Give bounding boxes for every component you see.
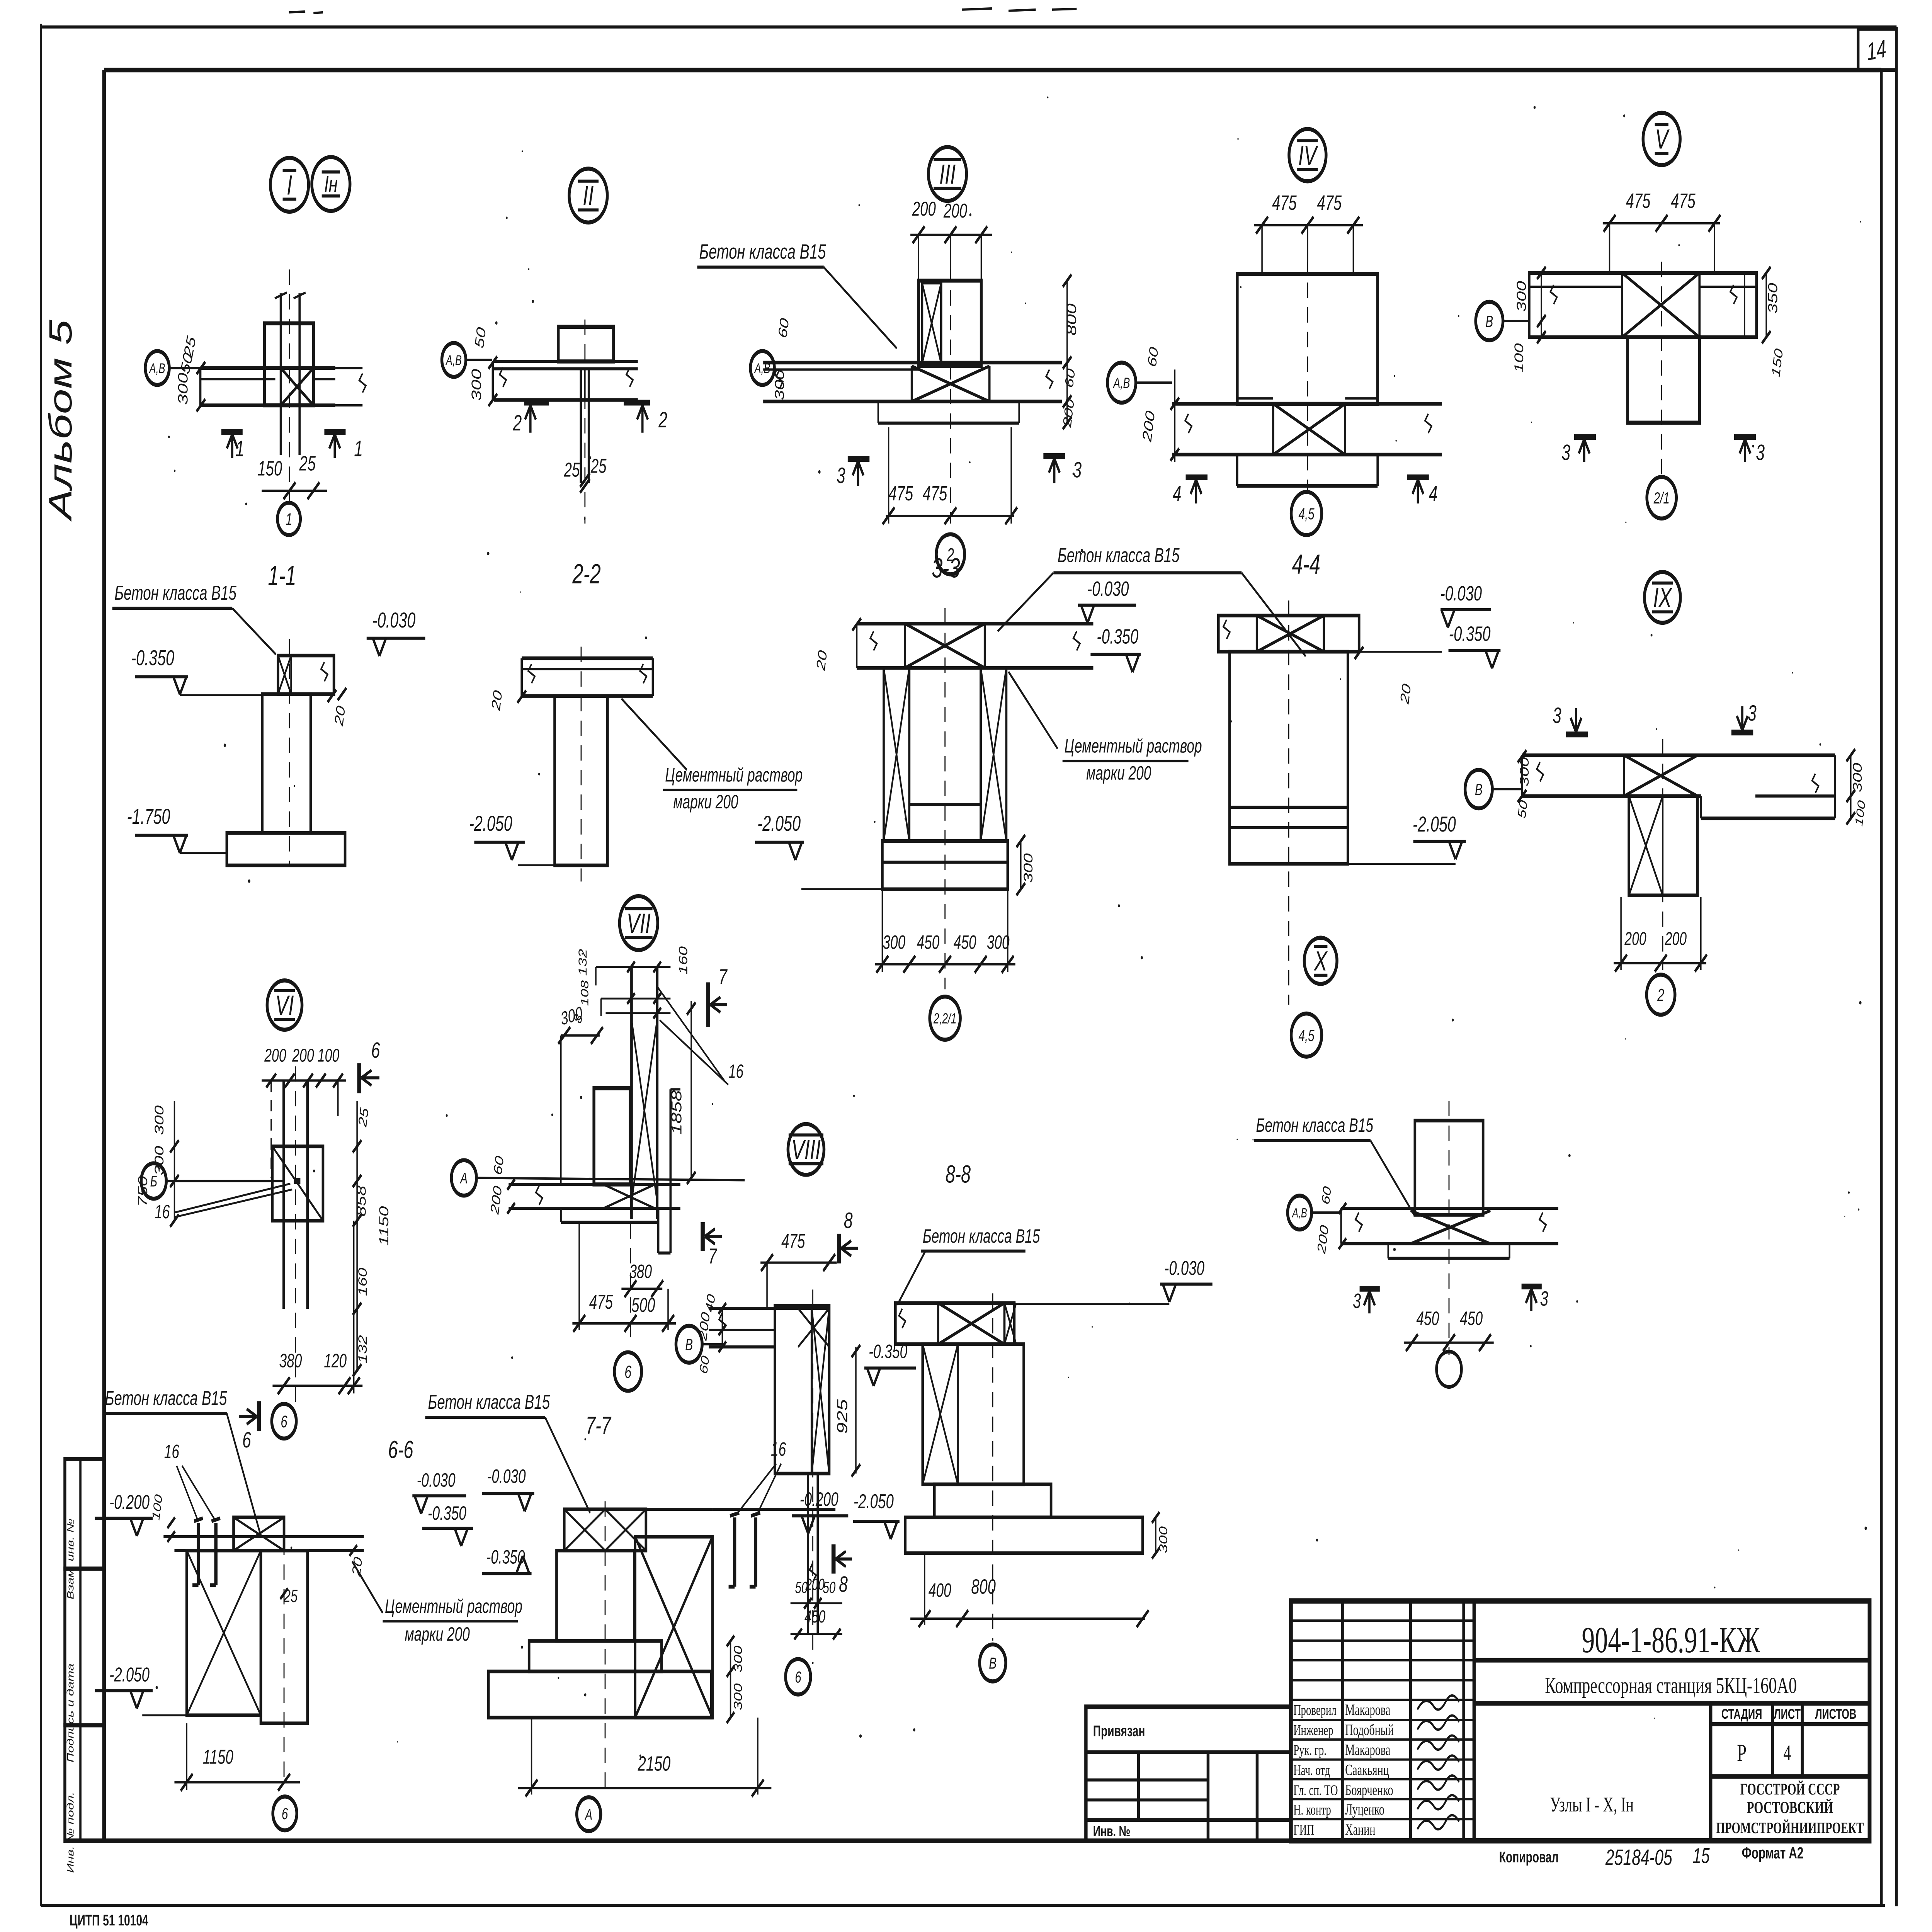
svg-text:4: 4 — [1173, 481, 1182, 506]
section 6-6 centerline — [283, 1540, 285, 1786]
svg-text:Макарова: Макарова — [1345, 1702, 1390, 1719]
svg-text:А,В: А,В — [1113, 374, 1130, 391]
svg-text:-0.350: -0.350 — [428, 1503, 466, 1524]
svg-text:А,В: А,В — [1291, 1206, 1307, 1220]
title block stage table — [1708, 1703, 1713, 1841]
detail VII grout pad — [561, 1221, 658, 1224]
svg-text:1-1: 1-1 — [268, 561, 296, 592]
svg-text:3-3: 3-3 — [932, 553, 960, 584]
detail I slab — [200, 366, 335, 370]
svg-text:475: 475 — [1626, 189, 1651, 212]
svg-text:60: 60 — [1145, 345, 1161, 368]
section 3-3 axis circle 2,2/1 — [930, 997, 960, 1040]
svg-text:ЦИТП 51 10104: ЦИТП 51 10104 — [70, 1912, 149, 1929]
svg-text:3: 3 — [1756, 440, 1765, 465]
svg-text:Бетон класса В15: Бетон класса В15 — [699, 240, 826, 263]
svg-text:475: 475 — [589, 1291, 613, 1313]
svg-text:25: 25 — [356, 1106, 371, 1129]
section 6-6 column right — [261, 1551, 308, 1723]
svg-text:25: 25 — [299, 452, 316, 475]
svg-text:132: 132 — [576, 949, 589, 976]
svg-text:В: В — [1486, 312, 1493, 330]
svg-text:VIII: VIII — [791, 1134, 821, 1165]
detail V axis circle B — [1476, 302, 1503, 340]
svg-text:2,2/1: 2,2/1 — [933, 1010, 956, 1027]
svg-text:Ханин: Ханин — [1345, 1821, 1375, 1838]
svg-text:2: 2 — [658, 407, 667, 432]
detail IX beam lower ledge — [1701, 816, 1835, 820]
section 8-8 cap — [895, 1303, 1014, 1344]
section 7-7 axis circle A — [577, 1797, 601, 1831]
svg-text:475: 475 — [1671, 189, 1696, 212]
detail III axis circle 2 — [936, 534, 964, 575]
detail V centerline — [1661, 262, 1662, 477]
svg-text:Гл. сп. ТО: Гл. сп. ТО — [1293, 1782, 1338, 1799]
section 8-8 axis circle B — [980, 1645, 1006, 1682]
section 3-3 footing — [882, 841, 1007, 889]
svg-text:450: 450 — [804, 1607, 825, 1627]
svg-text:Подпись и дата: Подпись и дата — [65, 1663, 76, 1762]
detail VII axis circle 6 — [614, 1352, 642, 1391]
svg-text:IX: IX — [1653, 583, 1672, 614]
svg-text:300: 300 — [175, 373, 190, 405]
svg-text:-0.350: -0.350 — [1449, 622, 1491, 645]
svg-text:В: В — [685, 1335, 693, 1354]
stamp box Podpis i data — [65, 1569, 104, 1725]
svg-text:6: 6 — [281, 1413, 287, 1431]
section 7-7 anchor block x — [635, 1537, 713, 1718]
detail VIII beam — [709, 1307, 829, 1310]
section 7-7 beam top line to bolts — [713, 1508, 835, 1511]
section 2-2 centerline — [580, 647, 582, 882]
detail IX beam x-brace — [1624, 755, 1697, 796]
detail IV slab x-brace — [1273, 404, 1345, 455]
detail IX axis circle B — [1465, 770, 1493, 808]
svg-text:200: 200 — [292, 1045, 314, 1066]
svg-text:Формат А2: Формат А2 — [1742, 1844, 1804, 1862]
section 1-1 column — [262, 694, 311, 833]
svg-text:II: II — [583, 181, 594, 212]
detail VI right dims — [356, 1101, 358, 1370]
svg-text:160: 160 — [356, 1268, 369, 1296]
title block outer — [1291, 1601, 1870, 1841]
svg-text:3: 3 — [1561, 440, 1570, 465]
detail I axis circle 1 — [277, 503, 300, 535]
svg-text:-0.350: -0.350 — [131, 646, 174, 670]
svg-text:Iн: Iн — [324, 171, 338, 197]
section 7-7 beam lines right — [646, 1508, 713, 1511]
svg-text:Альбом 5: Альбом 5 — [43, 320, 78, 522]
svg-text:40: 40 — [703, 1293, 718, 1314]
section 8-8 centerline — [992, 1293, 993, 1641]
svg-text:25: 25 — [590, 454, 607, 477]
svg-text:марки 200: марки 200 — [405, 1624, 470, 1645]
svg-text:60: 60 — [1063, 367, 1078, 389]
detail IV sub pad — [1236, 455, 1239, 486]
svg-text:Инв. № подл.: Инв. № подл. — [65, 1792, 76, 1873]
detail V axis circle 2,1 — [1647, 477, 1676, 519]
detail VIII axis circle 6 — [786, 1659, 811, 1695]
svg-text:3: 3 — [1073, 457, 1082, 482]
detail II column — [558, 327, 614, 362]
detail Xn centerline — [1448, 1101, 1450, 1355]
svg-text:-0.200: -0.200 — [800, 1489, 838, 1510]
section 8-8 column — [923, 1344, 1024, 1485]
svg-text:2150: 2150 — [638, 1752, 671, 1775]
detail IV pier — [1237, 274, 1378, 404]
detail VII lower wall strip — [657, 1208, 660, 1253]
svg-text:ГОССТРОЙ СССР: ГОССТРОЙ СССР — [1740, 1780, 1840, 1798]
svg-text:120: 120 — [324, 1350, 347, 1372]
svg-text:I: I — [287, 170, 292, 201]
section 7-7 centerline — [604, 1501, 606, 1794]
svg-text:3: 3 — [1553, 703, 1561, 728]
detail V beam x-brace — [1622, 273, 1699, 337]
section 7-7 anchor bolts — [732, 1517, 737, 1587]
section 6-6 slab — [163, 1535, 364, 1538]
svg-text:-0.030: -0.030 — [1440, 582, 1482, 605]
svg-text:-0.030: -0.030 — [417, 1470, 456, 1491]
section 2-2 grout leader — [621, 699, 687, 770]
svg-text:16: 16 — [728, 1061, 743, 1082]
svg-text:Нач. отд: Нач. отд — [1293, 1762, 1330, 1779]
section 1-1 cap — [278, 656, 334, 694]
svg-text:-2.050: -2.050 — [109, 1663, 150, 1686]
section 3-3 slab — [857, 622, 1093, 626]
svg-text:-2.050: -2.050 — [757, 811, 801, 835]
stamp box Vzam inv — [65, 1459, 104, 1569]
stamp box Inv no podl — [65, 1725, 104, 1841]
svg-text:6: 6 — [795, 1668, 801, 1686]
detail Xn beam x-brace — [1411, 1211, 1491, 1244]
detail IV axis circle 4,5 — [1291, 492, 1322, 535]
svg-text:3: 3 — [1353, 1289, 1361, 1313]
detail VII centerline — [630, 1174, 631, 1345]
detail IV marker circle — [1289, 129, 1326, 181]
detail II anchor pin — [579, 369, 582, 483]
svg-text:Бетон класса В15: Бетон класса В15 — [114, 582, 237, 604]
svg-text:300: 300 — [1022, 853, 1036, 883]
svg-text:А: А — [585, 1806, 592, 1823]
svg-text:200: 200 — [805, 1575, 825, 1593]
section 4-4 cap — [1218, 616, 1359, 652]
svg-text:7-7: 7-7 — [586, 1412, 612, 1439]
svg-text:300: 300 — [772, 369, 787, 400]
svg-text:В: В — [1475, 780, 1483, 798]
svg-text:8-8: 8-8 — [946, 1160, 971, 1188]
svg-text:Х: Х — [1313, 946, 1328, 977]
drawing frame — [101, 70, 107, 1841]
svg-text:475: 475 — [1272, 191, 1297, 214]
svg-text:-0.350: -0.350 — [1097, 625, 1138, 648]
detail V beam — [1529, 273, 1756, 337]
detail I marker circle — [270, 158, 309, 211]
detail VII wall x-strip — [630, 967, 634, 1219]
svg-text:300: 300 — [987, 932, 1010, 953]
svg-text:1150: 1150 — [203, 1745, 233, 1768]
svg-text:2: 2 — [513, 410, 522, 435]
section 8-8 footing — [905, 1517, 1143, 1553]
svg-text:50: 50 — [471, 326, 488, 350]
svg-text:-0.200: -0.200 — [109, 1491, 150, 1514]
svg-text:800: 800 — [1064, 303, 1079, 335]
svg-text:2/1: 2/1 — [1653, 489, 1670, 507]
svg-text:-0.030: -0.030 — [372, 608, 415, 632]
svg-text:ПРОМСТРОЙНИИПРОЕКТ: ПРОМСТРОЙНИИПРОЕКТ — [1716, 1819, 1864, 1837]
svg-text:300: 300 — [1850, 763, 1864, 792]
section 8-8 step — [934, 1484, 1051, 1517]
svg-text:450: 450 — [917, 932, 940, 953]
section 3-3 centerline — [944, 608, 946, 989]
svg-text:Бетон класса В15: Бетон класса В15 — [1058, 544, 1180, 566]
svg-text:марки 200: марки 200 — [1086, 762, 1151, 784]
svg-text:20: 20 — [1398, 682, 1414, 706]
svg-text:200: 200 — [1624, 928, 1646, 949]
svg-text:475: 475 — [889, 482, 913, 505]
svg-text:Бетон класса В15: Бетон класса В15 — [923, 1226, 1040, 1247]
svg-text:450: 450 — [1460, 1308, 1483, 1329]
svg-text:4,5: 4,5 — [1298, 1026, 1315, 1044]
svg-text:100: 100 — [1512, 343, 1526, 372]
svg-text:3: 3 — [1748, 701, 1757, 726]
detail IV ledge lines — [1237, 397, 1273, 400]
detail III centerline — [950, 265, 951, 523]
svg-text:50: 50 — [823, 1578, 835, 1596]
svg-text:-2.050: -2.050 — [469, 811, 512, 835]
detail I centerline — [289, 269, 290, 503]
svg-text:-0.030: -0.030 — [1164, 1257, 1204, 1279]
detail IX marker circle — [1645, 572, 1680, 623]
detail IX centerline — [1662, 739, 1663, 970]
detail I axis circle A,B — [145, 351, 169, 385]
svg-text:6: 6 — [282, 1804, 288, 1823]
svg-text:160: 160 — [677, 946, 690, 975]
detail IX beam — [1522, 753, 1835, 757]
detail I column — [264, 323, 313, 405]
detail Xn column above — [1415, 1121, 1483, 1215]
detail V right dims — [1743, 273, 1745, 337]
detail IX right dims — [1850, 755, 1852, 818]
section 1-1 footing — [227, 833, 345, 866]
svg-text:Р: Р — [1737, 1739, 1747, 1766]
detail IX axis circle 2 — [1646, 975, 1675, 1015]
detail VII marker circle — [619, 896, 658, 950]
svg-text:20: 20 — [350, 1556, 365, 1578]
svg-text:132: 132 — [356, 1335, 369, 1363]
svg-text:СТАДИЯ: СТАДИЯ — [1721, 1706, 1762, 1722]
detail I x-brace — [281, 368, 314, 405]
svg-text:1150: 1150 — [376, 1206, 391, 1246]
svg-text:475: 475 — [781, 1230, 805, 1252]
svg-text:1: 1 — [286, 510, 292, 529]
section 7-7 cap — [564, 1509, 646, 1551]
svg-text:Цементный раствор: Цементный раствор — [665, 764, 803, 786]
detail III right dims — [1066, 281, 1068, 423]
svg-text:Инженер: Инженер — [1293, 1723, 1333, 1739]
svg-text:800: 800 — [971, 1575, 996, 1598]
svg-text:450: 450 — [1417, 1308, 1439, 1329]
svg-text:Рук. гр.: Рук. гр. — [1293, 1742, 1327, 1759]
svg-text:2-2: 2-2 — [572, 559, 601, 590]
section 6-6 column left — [187, 1551, 261, 1715]
detail II slab — [493, 360, 638, 363]
svg-text:25: 25 — [564, 458, 580, 481]
detail VI centerline — [295, 1066, 296, 1403]
svg-text:Н. контр: Н. контр — [1293, 1802, 1331, 1818]
svg-text:ЛИСТОВ: ЛИСТОВ — [1815, 1706, 1857, 1722]
detail VI axis circle 6 — [272, 1404, 296, 1439]
section 4-4 centerline — [1288, 600, 1289, 1005]
svg-text:Инв. №: Инв. № — [1093, 1823, 1131, 1839]
section 4-4 axis circle 4,5 — [1291, 1014, 1322, 1057]
svg-text:А,В: А,В — [445, 352, 462, 368]
svg-text:3: 3 — [837, 463, 845, 488]
svg-text:350: 350 — [1765, 283, 1780, 314]
section 3-3 slab x-brace — [905, 624, 985, 668]
section 2-2 slab — [522, 656, 653, 660]
section 1-1 centerline — [289, 639, 290, 866]
svg-text:Компрессорная станция 5КЦ-160А: Компрессорная станция 5КЦ-160А0 — [1545, 1673, 1797, 1698]
svg-text:Боярченко: Боярченко — [1345, 1782, 1393, 1799]
detail VIII beam x — [798, 1308, 829, 1347]
svg-text:ГИП: ГИП — [1293, 1822, 1314, 1838]
svg-text:4-4: 4-4 — [1292, 549, 1320, 580]
detail III column — [918, 281, 981, 366]
detail VII column section rect — [594, 1088, 630, 1184]
svg-text:7: 7 — [719, 965, 728, 989]
svg-text:4,5: 4,5 — [1298, 505, 1315, 523]
svg-text:14: 14 — [1866, 34, 1888, 66]
sheet outer cut border — [39, 24, 43, 1906]
svg-text:200: 200 — [264, 1045, 286, 1066]
detail IV centerline — [1307, 258, 1308, 492]
svg-text:Взам. инв. №: Взам. инв. № — [65, 1519, 76, 1599]
svg-text:ЛИСТ: ЛИСТ — [1774, 1706, 1801, 1722]
svg-text:16: 16 — [771, 1439, 786, 1460]
svg-text:500: 500 — [631, 1294, 655, 1316]
detail VI marker circle — [267, 980, 302, 1030]
svg-text:400: 400 — [929, 1580, 951, 1601]
detail V marker circle — [1643, 113, 1680, 165]
svg-text:-0.030: -0.030 — [487, 1466, 526, 1487]
svg-text:380: 380 — [629, 1261, 652, 1282]
svg-text:300: 300 — [469, 369, 484, 401]
detail VIII column — [775, 1306, 829, 1473]
svg-text:380: 380 — [279, 1350, 302, 1372]
svg-text:Бетон класса В15: Бетон класса В15 — [1256, 1115, 1374, 1136]
svg-text:200: 200 — [943, 199, 967, 222]
svg-text:858: 858 — [354, 1185, 369, 1216]
svg-text:50: 50 — [1515, 799, 1530, 820]
detail In marker circle — [312, 157, 350, 211]
detail VI wall lines — [282, 1080, 286, 1309]
title block column dividers — [1472, 1601, 1476, 1841]
svg-text:1: 1 — [354, 436, 363, 461]
svg-text:20: 20 — [489, 689, 505, 712]
detail II centerline — [584, 320, 586, 524]
svg-text:Проверил: Проверил — [1293, 1702, 1337, 1719]
section 6-6 axis circle 6 — [273, 1796, 297, 1830]
svg-text:IV: IV — [1298, 140, 1319, 171]
svg-text:300: 300 — [1157, 1526, 1170, 1553]
detail II axis circle A,B — [442, 343, 466, 377]
section 2-2 column — [555, 696, 608, 865]
page number box 14 — [1858, 29, 1896, 70]
svg-text:60: 60 — [776, 317, 792, 340]
svg-text:15: 15 — [1693, 1844, 1710, 1868]
svg-text:6: 6 — [371, 1038, 380, 1063]
svg-text:475: 475 — [923, 482, 947, 505]
svg-text:марки 200: марки 200 — [673, 791, 738, 813]
detail III column x-brace — [922, 283, 941, 363]
svg-text:8: 8 — [839, 1571, 848, 1597]
svg-text:А: А — [460, 1170, 468, 1187]
svg-text:925: 925 — [834, 1399, 850, 1434]
privyazan box — [1086, 1707, 1291, 1841]
svg-text:475: 475 — [1317, 191, 1342, 214]
detail VIII centerline — [812, 1289, 814, 1655]
svg-text:Привязан: Привязан — [1093, 1723, 1145, 1740]
svg-text:300: 300 — [153, 1146, 167, 1175]
detail III slab x-brace — [912, 366, 990, 401]
detail V column below — [1628, 337, 1699, 423]
section 6-6 cap x-box — [234, 1517, 284, 1551]
svg-text:300: 300 — [1514, 281, 1529, 312]
svg-text:В: В — [989, 1654, 997, 1672]
svg-text:6: 6 — [242, 1427, 251, 1452]
section 6-6 anchor bolts — [196, 1523, 201, 1585]
section 3-3 sleeve walls — [884, 668, 909, 841]
detail X marker circle — [1304, 938, 1337, 984]
svg-text:А,В: А,В — [754, 361, 770, 376]
detail Xn axis circle A,B — [1287, 1196, 1311, 1230]
svg-text:200: 200 — [912, 197, 936, 220]
svg-text:300: 300 — [731, 1683, 745, 1710]
svg-text:-0.030: -0.030 — [1087, 577, 1129, 600]
svg-text:V: V — [1655, 124, 1670, 155]
detail VI column section — [272, 1146, 323, 1221]
detail Xn grout pad — [1387, 1244, 1389, 1259]
svg-text:904-1-86.91-КЖ: 904-1-86.91-КЖ — [1582, 1619, 1760, 1660]
svg-text:20: 20 — [332, 704, 348, 728]
svg-text:Подобный: Подобный — [1345, 1721, 1394, 1738]
svg-text:7: 7 — [708, 1244, 718, 1268]
detail Xn axis circle empty — [1437, 1352, 1462, 1387]
svg-text:3: 3 — [1540, 1287, 1548, 1310]
svg-text:25184-05: 25184-05 — [1605, 1845, 1672, 1870]
svg-text:А,В: А,В — [149, 361, 165, 376]
svg-text:6-6: 6-6 — [388, 1436, 413, 1464]
svg-text:Цементный раствор: Цементный раствор — [1065, 736, 1202, 757]
svg-text:2: 2 — [1657, 985, 1664, 1005]
title block row lines — [1291, 1619, 1474, 1622]
svg-text:60: 60 — [1319, 1185, 1334, 1206]
svg-text:Копировал: Копировал — [1499, 1849, 1559, 1866]
detail VII axis circle A — [451, 1160, 476, 1196]
svg-text:-1.750: -1.750 — [127, 804, 170, 828]
svg-text:6: 6 — [624, 1362, 632, 1382]
detail III axis circle A,B — [750, 351, 774, 385]
svg-text:750: 750 — [135, 1176, 150, 1207]
section 8-8 right dim 300 — [1155, 1517, 1156, 1553]
section 7-7 footing — [488, 1672, 711, 1718]
detail VII slab — [509, 1183, 680, 1186]
svg-text:100: 100 — [318, 1045, 339, 1066]
detail IV axis circle A,B — [1107, 362, 1136, 403]
section 3-3 right dim 300 — [1020, 841, 1022, 889]
detail III marker circle — [929, 147, 967, 201]
svg-text:Луценко: Луценко — [1345, 1801, 1384, 1818]
